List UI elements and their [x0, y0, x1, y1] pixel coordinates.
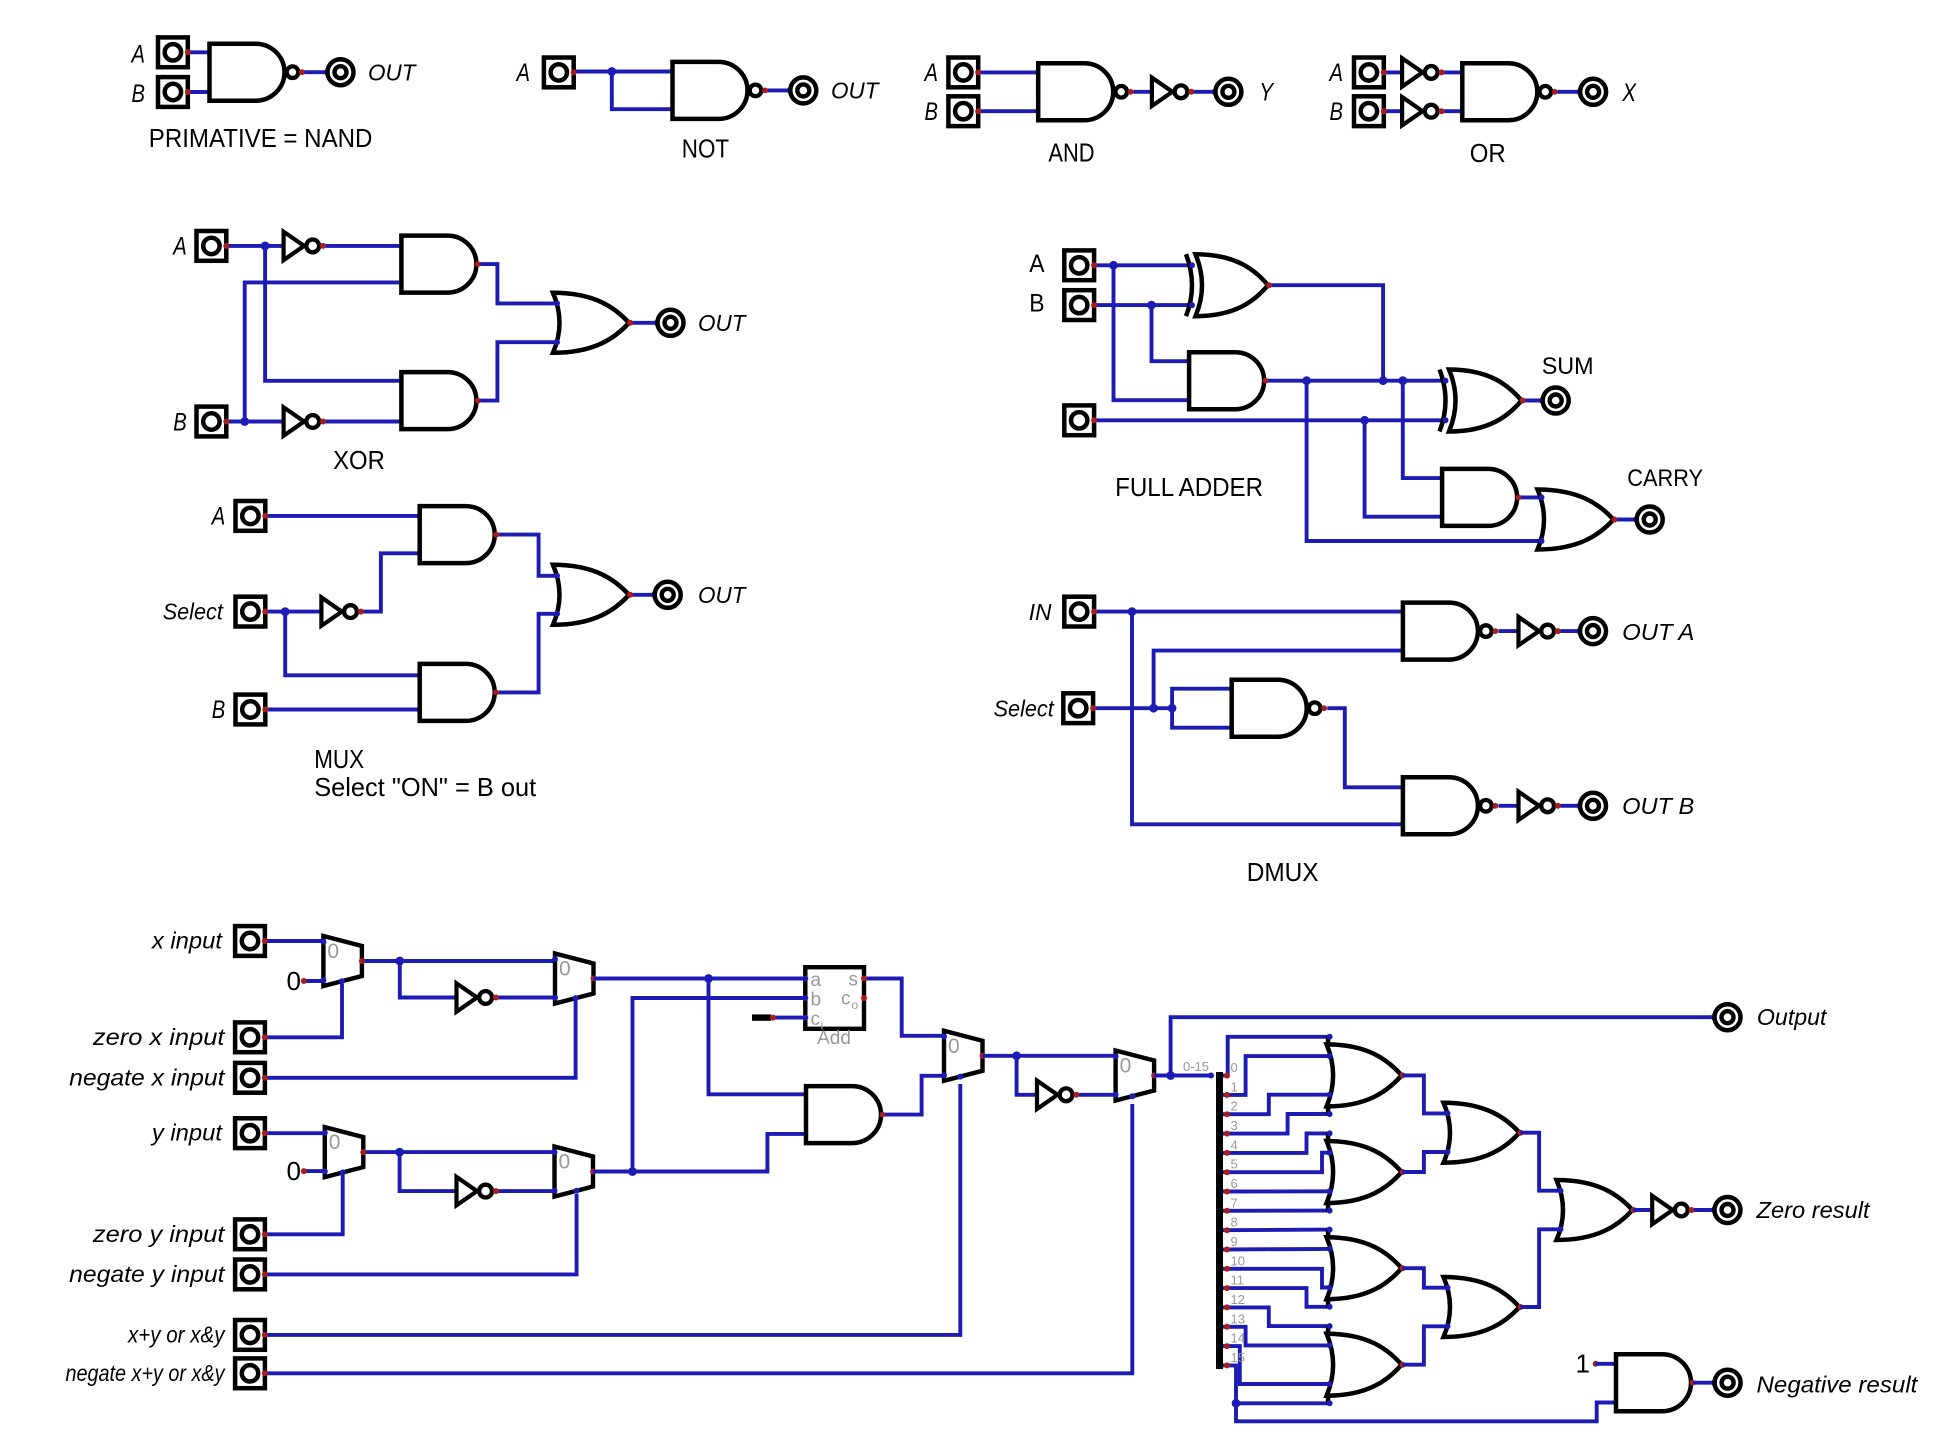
wire U10 out to OR U12 bottom input — [479, 342, 559, 400]
wire net B up to AND U9 bottom input — [245, 282, 402, 421]
wire Select to junctions — [1094, 706, 1172, 710]
svg-text:14: 14 — [1231, 1331, 1245, 1346]
adder block Add — [802, 967, 867, 1049]
junction on net IN — [1128, 607, 1137, 616]
junction M5 out — [1012, 1051, 1021, 1060]
svg-text:c: c — [841, 989, 851, 1010]
svg-text:zero x input: zero x input — [92, 1024, 226, 1050]
svg-text:MUX: MUX — [314, 744, 364, 774]
input pin A — [1354, 58, 1387, 88]
wire M2 out to adder a input — [594, 977, 806, 981]
wire M4 out to AND U29 bottom input — [593, 1134, 806, 1172]
svg-text:B: B — [1330, 98, 1344, 126]
wire row1 down to AND U19 top input — [1403, 381, 1442, 478]
output pin Zero result — [1711, 1197, 1741, 1223]
svg-text:2: 2 — [1231, 1099, 1238, 1114]
svg-text:Select: Select — [163, 599, 225, 625]
wire net Select up to NAND U22 bottom input — [1154, 651, 1403, 709]
junction on net Select — [281, 607, 290, 616]
NOT gate U6 — [1402, 97, 1444, 125]
wire U9 out to OR U12 top input — [479, 264, 559, 303]
splitter bus 0-15 — [1216, 1072, 1223, 1369]
svg-text:B: B — [173, 409, 187, 437]
svg-text:B: B — [132, 80, 146, 108]
input pin y input — [235, 1118, 268, 1148]
input pin B — [1064, 290, 1097, 320]
wire zero y input to MUX M3 select — [266, 1174, 343, 1234]
svg-text:1: 1 — [1231, 1079, 1238, 1094]
junction on net B — [1147, 301, 1156, 310]
wire bus bit 6 to OR B in3 — [1223, 1189, 1332, 1193]
svg-text:Zero result: Zero result — [1755, 1197, 1871, 1223]
wire U7 out to pin X — [1558, 90, 1581, 94]
XOR gate U17 (A xor B) — [1186, 254, 1272, 316]
svg-text:3: 3 — [1231, 1118, 1238, 1133]
wire zero x input to MUX M1 select — [266, 984, 343, 1037]
wire bit15 row down to AND U31 bottom input — [1236, 1403, 1616, 1422]
wire B to NAND U1 — [189, 90, 210, 94]
wire U12 out to pin OUT — [631, 321, 657, 325]
NAND gate U22 — [1400, 603, 1498, 660]
svg-text:CARRY: CARRY — [1627, 465, 1703, 492]
OR gate F — [1444, 1277, 1524, 1337]
junction row2/and branch — [1360, 416, 1369, 425]
wire B to XOR U17 bottom input — [1095, 303, 1192, 307]
multiplexer M1 (zero x) — [320, 936, 365, 986]
wire U5 out to NAND U7 — [1444, 70, 1463, 74]
svg-text:OUT: OUT — [698, 310, 747, 336]
output pin Negative result — [1711, 1370, 1741, 1396]
junction M4 out — [628, 1167, 637, 1176]
wire M5 out to MUX M6 top input — [983, 1054, 1116, 1058]
input pin negate y input — [235, 1260, 268, 1290]
wire U19 out to OR U21 top input — [1519, 495, 1545, 499]
svg-text:OUT: OUT — [831, 78, 880, 104]
wire y input to MUX M3 — [266, 1131, 325, 1135]
wire M2 out down to AND U29 top input — [709, 979, 807, 1095]
wire NAND U1 out to pin OUT — [303, 70, 327, 74]
wire row1 down to OR U21 bottom input — [1307, 381, 1545, 541]
svg-text:zero y input: zero y input — [92, 1221, 226, 1247]
svg-text:PRIMATIVE = NAND: PRIMATIVE = NAND — [149, 123, 373, 153]
junction M3 out — [395, 1148, 404, 1157]
wire U23 out to NAND U24 top input — [1327, 708, 1403, 787]
input pin A — [948, 58, 981, 88]
wire junction — [607, 67, 616, 76]
junction row1/carry branch — [1302, 376, 1311, 385]
wire bus bit 1 to OR A in2 — [1223, 1056, 1332, 1095]
svg-text:10: 10 — [1231, 1253, 1245, 1268]
wire x+y or x&y to MUX M5 select — [266, 1084, 961, 1335]
OR gate U12 — [553, 293, 633, 353]
wire U22 out to NOT U25 — [1499, 629, 1519, 633]
multiplexer M4 (negate y) — [552, 1147, 597, 1197]
wire U6 out to NAND U7 — [1444, 109, 1463, 113]
wire negate x input to MUX M2 select — [266, 1001, 576, 1078]
OR gate B (4-input) — [1327, 1130, 1406, 1213]
AND gate U15 — [417, 664, 499, 721]
wire U24 out to NOT U26 — [1499, 804, 1519, 808]
svg-text:OUT B: OUT B — [1622, 793, 1694, 819]
svg-text:0: 0 — [1231, 1060, 1238, 1075]
svg-text:A: A — [515, 59, 530, 87]
wire net IN down to NAND U24 bottom input — [1132, 612, 1403, 825]
wire bus bit 13 to OR D in2 — [1223, 1327, 1332, 1346]
wire OR C out to OR F in1 — [1403, 1268, 1450, 1288]
svg-text:4: 4 — [1231, 1137, 1238, 1152]
OR gate E — [1444, 1103, 1524, 1163]
AND gate U18 (A and B) — [1186, 352, 1268, 409]
svg-text:B: B — [1029, 290, 1044, 318]
svg-text:AND: AND — [1048, 138, 1094, 168]
svg-text:Add: Add — [817, 1028, 851, 1049]
svg-text:15: 15 — [1231, 1350, 1245, 1365]
output pin X — [1577, 79, 1607, 105]
wire constant 0 to MUX M1 — [304, 979, 324, 983]
input pin A — [236, 501, 269, 531]
svg-text:A: A — [1328, 59, 1343, 87]
junction bit15 / negative-result branch — [1232, 1399, 1241, 1408]
svg-text:B: B — [925, 98, 939, 126]
wire U18 out / row1 to XOR U20 top input — [1266, 379, 1444, 383]
wire U14 out to AND U13 bottom input — [363, 553, 420, 611]
input pin x input — [235, 926, 268, 956]
wire A to NAND U1 — [189, 50, 210, 54]
wire row2 down to AND U19 bottom input — [1365, 420, 1443, 516]
wire bus bit 10 to OR C in3 — [1223, 1269, 1332, 1288]
wire U13 out to OR U16 top input — [497, 535, 559, 576]
svg-text:Negative result: Negative result — [1757, 1372, 1920, 1398]
svg-text:OUT A: OUT A — [1622, 619, 1694, 645]
wire A branch to U2 bottom input — [612, 72, 673, 110]
svg-text:12: 12 — [1231, 1292, 1245, 1307]
input pin zero y input — [235, 1219, 268, 1249]
wire OR F out to OR G in2 — [1521, 1229, 1563, 1307]
svg-text:a: a — [811, 970, 822, 991]
input pin B — [1354, 96, 1387, 126]
junction Select/nand — [1168, 704, 1177, 713]
multiplexer M2 (negate x) — [552, 954, 597, 1004]
wire U27 out to MUX M2 bottom input — [498, 996, 555, 1000]
svg-text:A: A — [172, 233, 187, 261]
svg-text:Output: Output — [1757, 1004, 1828, 1030]
output pin OUT — [324, 59, 354, 85]
ground constant (carry in = 0) — [752, 1014, 771, 1020]
wire U21 out to pin CARRY — [1615, 518, 1636, 522]
input pin negate x+y or x&y — [235, 1358, 268, 1388]
wire carry-in row2 to XOR U20 bottom input — [1095, 418, 1445, 422]
NOT gate U11 — [284, 407, 326, 435]
svg-text:0: 0 — [287, 966, 301, 996]
wire bus bit 4 to OR B in1 — [1223, 1133, 1332, 1153]
wire bus bit 5 to OR B in2 — [1223, 1153, 1332, 1173]
wire up and right to pin Output — [1171, 1017, 1715, 1075]
wire M3 out to MUX M4 top input — [363, 1150, 554, 1154]
wire OR D out to OR F in2 — [1403, 1326, 1450, 1364]
svg-text:NOT: NOT — [682, 134, 729, 164]
wire constant 0 to MUX M3 — [304, 1169, 325, 1173]
wire bus bit 11 to OR C in4 — [1223, 1288, 1332, 1307]
output pin OUT A — [1576, 618, 1606, 644]
input pin x+y or x&y — [235, 1320, 268, 1350]
NOT gate U14 — [321, 597, 363, 625]
input pin A — [158, 37, 191, 67]
svg-text:8: 8 — [1231, 1215, 1238, 1230]
junction on net A — [1109, 261, 1118, 270]
input pin zero x input — [235, 1022, 268, 1052]
wire adder sum out to MUX M5 top input — [864, 979, 944, 1036]
junction on net B — [240, 417, 249, 426]
svg-text:o: o — [852, 998, 859, 1012]
multiplexer M6 (negate result) — [1113, 1051, 1158, 1101]
wire A to NOT U8 — [227, 244, 283, 248]
wire U2 out to pin OUT — [766, 88, 790, 92]
wire OR B out to OR E in2 — [1403, 1152, 1450, 1172]
svg-text:13: 13 — [1231, 1311, 1245, 1326]
wire U29 out to MUX M5 bottom input — [885, 1076, 944, 1115]
wire bus bit 12 to OR D in1 — [1223, 1307, 1332, 1326]
svg-text:11: 11 — [1231, 1273, 1245, 1288]
wire A to NOT-NAND U2 top input — [575, 70, 673, 74]
svg-text:9: 9 — [1231, 1234, 1238, 1249]
XOR gate U20 (sum) — [1440, 370, 1526, 432]
NOT gate U8 — [284, 232, 326, 260]
wire net A down to AND U10 top input — [265, 246, 401, 381]
wire U26 out to pin OUT B — [1560, 804, 1580, 808]
wire M5 out down to NOT U30 — [1017, 1056, 1037, 1095]
wire U32 out to pin Zero result — [1694, 1208, 1715, 1212]
svg-text:7: 7 — [1231, 1195, 1238, 1210]
wire net Select to NAND U23 bottom input — [1172, 708, 1232, 728]
input pin B — [948, 96, 981, 126]
wire net Select down to AND U15 top input — [285, 612, 420, 676]
AND gate U10 — [398, 372, 480, 429]
svg-text:A: A — [130, 41, 145, 69]
wire U16 out to pin OUT — [631, 593, 654, 597]
wire IN to NAND U22 top input — [1095, 610, 1403, 614]
NAND gate U24 — [1400, 777, 1498, 834]
junction M2 out — [704, 974, 713, 983]
wire U17 out to net row1 — [1269, 285, 1383, 381]
junction on net A — [261, 242, 270, 251]
wire Select to NOT U14 — [266, 610, 321, 614]
output pin OUT B — [1576, 793, 1606, 819]
wire A to NAND U3 — [979, 70, 1038, 74]
wire bus bit 8 to OR C in1 — [1223, 1228, 1332, 1232]
junction M1 out — [395, 957, 404, 966]
NOT gate U25 — [1519, 617, 1561, 645]
wire A to AND U13 top input — [266, 514, 420, 518]
wire B to NOT U6 — [1385, 109, 1403, 113]
wire bus bit 3 to OR A in4 — [1223, 1114, 1332, 1134]
AND gate U19 — [1439, 469, 1521, 526]
AND gate U13 — [417, 506, 499, 563]
input pin negate x input — [235, 1063, 268, 1093]
output pin Output — [1711, 1004, 1741, 1030]
output pin OUT — [654, 310, 684, 336]
NOT gate U28 — [457, 1177, 499, 1205]
wire M1 out to MUX M2 top input — [362, 959, 555, 963]
NAND gate U3 — [1035, 63, 1133, 120]
svg-text:0-15: 0-15 — [1183, 1059, 1209, 1074]
svg-text:0: 0 — [559, 1151, 571, 1174]
svg-text:A: A — [923, 59, 938, 87]
svg-text:0: 0 — [948, 1035, 960, 1058]
wire U4 out to pin Y — [1194, 90, 1216, 94]
wire U11 out to AND U10 bottom input — [325, 420, 401, 424]
wire U30 out to MUX M6 bottom input — [1079, 1093, 1116, 1097]
wire bus bit 7 to OR B in4 — [1223, 1209, 1332, 1213]
wire A to NOT U5 — [1385, 70, 1403, 74]
svg-text:SUM: SUM — [1542, 353, 1594, 380]
input pin Select — [236, 597, 269, 627]
svg-text:OUT: OUT — [368, 60, 417, 86]
output pin SUM — [1539, 388, 1569, 414]
wire net B down to AND U18 top input — [1152, 305, 1190, 361]
multiplexer M5 (add or and) — [941, 1031, 986, 1081]
svg-text:c: c — [811, 1009, 821, 1030]
wire OR E out to OR G in1 — [1521, 1133, 1563, 1191]
wire OR G out to NOT U32 — [1634, 1208, 1653, 1212]
svg-text:Select "ON" = B out: Select "ON" = B out — [314, 772, 537, 802]
wire B to NOT U11 — [227, 420, 283, 424]
junction row1/xor branch — [1379, 376, 1388, 385]
svg-text:A: A — [210, 503, 225, 531]
svg-text:FULL ADDER: FULL ADDER — [1115, 472, 1263, 502]
wire ground to adder carry-in — [774, 1016, 805, 1020]
input pin carry in — [1064, 405, 1097, 435]
wire U15 out to OR U16 bottom input — [497, 614, 559, 693]
svg-text:0: 0 — [327, 940, 339, 963]
svg-text:1: 1 — [1576, 1349, 1590, 1379]
wire U25 out to pin OUT A — [1560, 629, 1580, 633]
output pin Y — [1212, 79, 1242, 105]
junction row1/and branch — [1398, 376, 1407, 385]
wire U8 out to AND U9 top input — [325, 244, 401, 248]
wire U20 out to pin SUM — [1523, 399, 1543, 403]
input pin B — [236, 695, 269, 725]
junction Select/upper — [1149, 704, 1158, 713]
wire constant 1 to AND U31 top input — [1596, 1362, 1616, 1366]
svg-text:X: X — [1621, 79, 1637, 107]
OR gate U16 — [553, 565, 633, 625]
wire bus bit 15 to OR D in4 — [1223, 1365, 1332, 1403]
wire M6 out to splitter — [1154, 1074, 1211, 1078]
wire negate x+y or x&y to MUX M6 select — [266, 1104, 1133, 1373]
OR gate C (4-input) — [1327, 1227, 1406, 1310]
input pin B — [197, 407, 230, 437]
svg-text:y input: y input — [150, 1120, 224, 1146]
wire net A down to AND U18 bottom input — [1114, 265, 1190, 400]
AND gate U29 (x and y) — [803, 1086, 885, 1143]
wire B to AND U15 bottom input — [266, 708, 420, 712]
svg-text:s: s — [849, 970, 859, 991]
wire U3 out to NOT U4 — [1134, 90, 1152, 94]
wire A to XOR U17 top input — [1095, 263, 1192, 267]
wire negate y input to MUX M4 select — [266, 1194, 577, 1274]
svg-text:b: b — [811, 990, 822, 1011]
svg-text:OUT: OUT — [698, 582, 747, 608]
svg-text:negate x+y or x&y: negate x+y or x&y — [66, 1360, 226, 1386]
OR gate U21 (carry) — [1538, 490, 1618, 550]
input pin IN — [1064, 597, 1097, 627]
AND gate U31 (negative) — [1613, 1354, 1695, 1411]
NOT gate U27 — [457, 983, 499, 1011]
wire M3 out down to NOT U28 — [400, 1152, 457, 1191]
svg-text:DMUX: DMUX — [1247, 857, 1319, 887]
output pin OUT — [787, 77, 817, 103]
input pin A — [197, 231, 230, 261]
NOT gate U26 — [1519, 792, 1561, 820]
svg-text:negate y input: negate y input — [69, 1261, 226, 1287]
output pin OUT — [651, 582, 681, 608]
NAND gate U2 — [670, 62, 768, 119]
wire x input to MUX M1 — [266, 939, 324, 943]
junction Output branch — [1166, 1071, 1175, 1080]
svg-text:IN: IN — [1029, 599, 1052, 625]
svg-text:A: A — [1029, 250, 1045, 278]
input pin A — [1064, 250, 1097, 280]
multiplexer M3 (zero y) — [322, 1127, 367, 1177]
wire bus bit 0 to OR A in1 — [1223, 1037, 1332, 1076]
svg-text:B: B — [212, 696, 226, 724]
NOT gate U30 — [1037, 1081, 1079, 1109]
wire B to NAND U3 — [979, 109, 1038, 113]
svg-text:0: 0 — [559, 958, 571, 981]
wire bus bit 9 to OR C in2 — [1223, 1247, 1332, 1251]
input pin A — [544, 58, 577, 88]
NOT gate U5 — [1402, 58, 1444, 86]
wire M1 out down to NOT U27 — [400, 961, 457, 998]
OR gate G — [1557, 1180, 1637, 1240]
wire net Select to NAND U23 top input — [1172, 689, 1232, 709]
OR gate D (4-input) — [1327, 1323, 1406, 1406]
svg-text:Select: Select — [994, 695, 1056, 721]
NAND gate U1 — [207, 44, 305, 101]
input pin Select — [1063, 693, 1096, 723]
wire bus bit 14 to OR D in3 — [1223, 1346, 1332, 1384]
OR gate A (4-input) — [1327, 1034, 1406, 1117]
AND gate U9 — [398, 236, 480, 293]
svg-text:XOR: XOR — [333, 445, 385, 475]
NOT gate U4 — [1152, 78, 1194, 106]
svg-text:OR: OR — [1470, 138, 1506, 168]
svg-text:Y: Y — [1259, 79, 1275, 107]
svg-text:6: 6 — [1231, 1176, 1238, 1191]
wire U31 out to pin Negative result — [1693, 1381, 1715, 1385]
svg-text:0: 0 — [329, 1131, 341, 1154]
NAND gate U7 — [1459, 63, 1557, 120]
svg-text:5: 5 — [1231, 1157, 1238, 1172]
wire M4 out up to adder b input — [633, 998, 806, 1172]
input pin B — [158, 77, 191, 107]
svg-text:x+y or x&y: x+y or x&y — [127, 1321, 226, 1347]
wire bus bit 2 to OR A in3 — [1223, 1095, 1332, 1115]
output pin CARRY — [1633, 507, 1663, 533]
svg-text:0: 0 — [287, 1156, 301, 1186]
svg-text:0: 0 — [1120, 1055, 1132, 1078]
svg-text:x input: x input — [151, 928, 224, 954]
wire OR A out to OR E in1 — [1403, 1075, 1450, 1113]
wire U28 out to MUX M4 bottom input — [498, 1189, 554, 1193]
NOT gate U32 — [1652, 1196, 1694, 1224]
NAND gate U23 — [1229, 680, 1327, 737]
svg-text:negate x input: negate x input — [69, 1064, 226, 1090]
